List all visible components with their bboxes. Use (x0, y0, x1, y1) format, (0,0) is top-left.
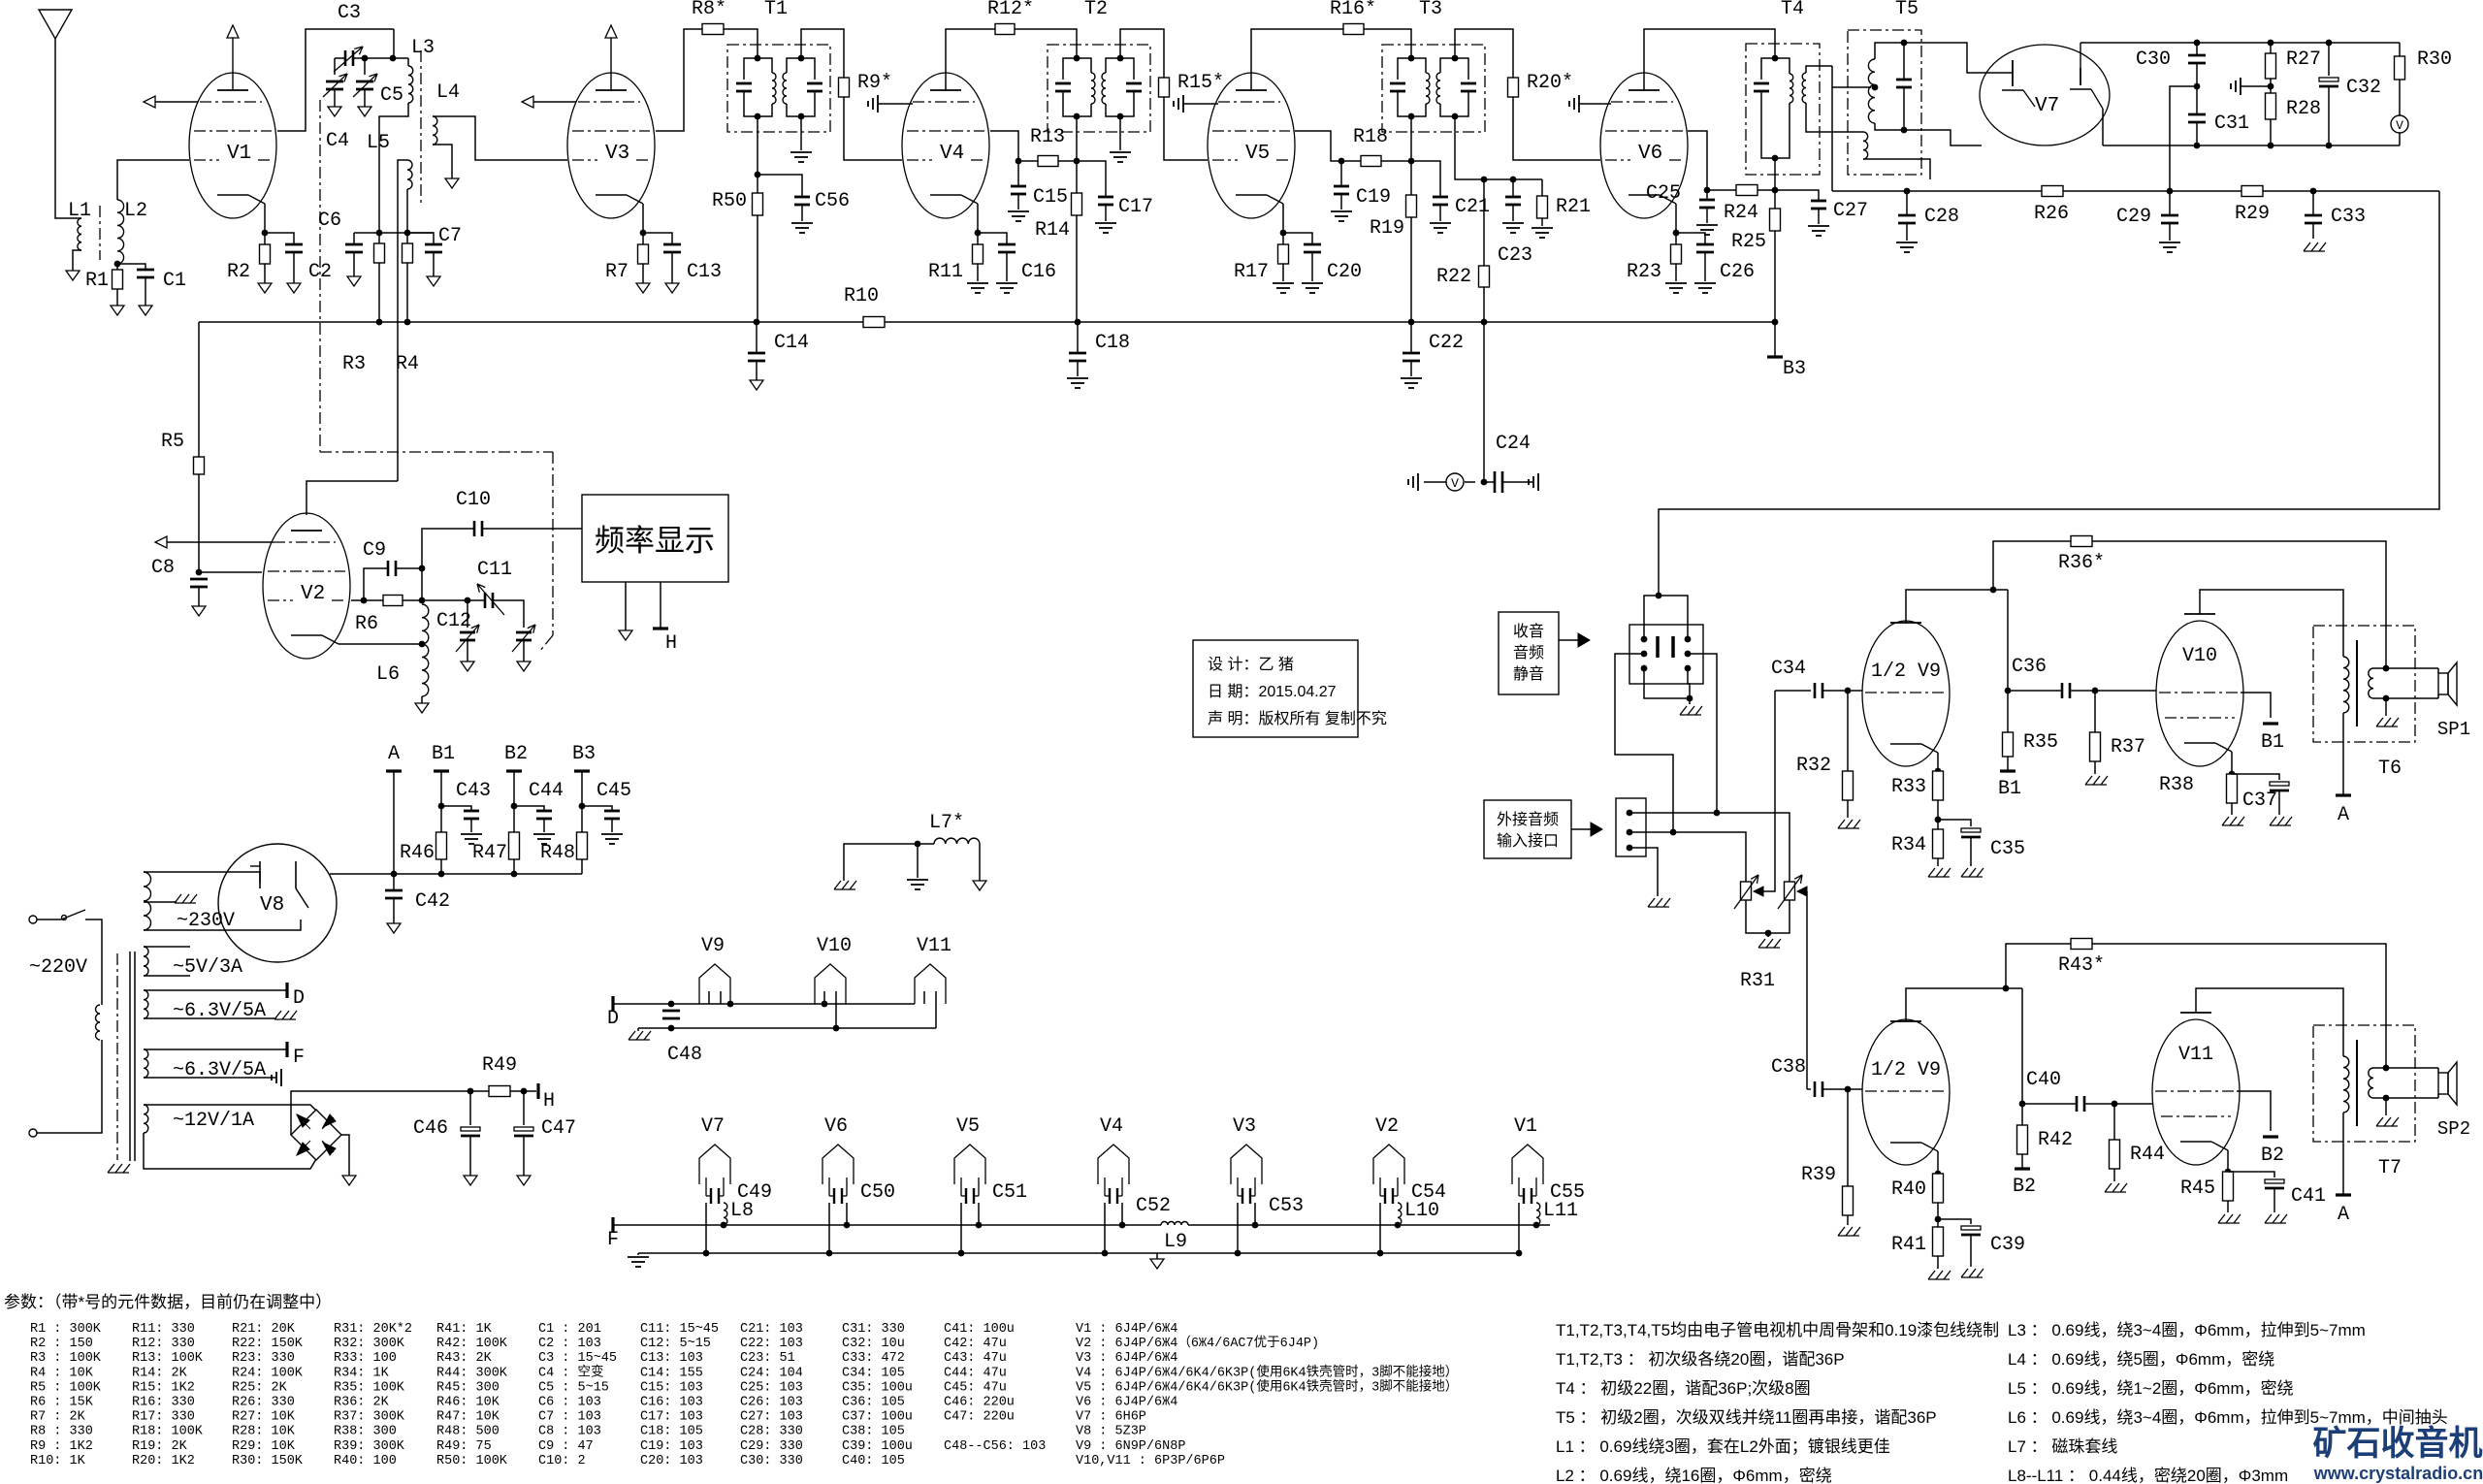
svg-text:C42: 47u: C42: 47u (944, 1337, 1007, 1351)
svg-text:R18: 100K: R18: 100K (132, 1425, 204, 1439)
resistor R48 (581, 806, 583, 832)
wire (354, 232, 434, 234)
svg-text:V4 : 6J4P/6Ж4/6K4/6K3P(使用6K4铁壳: V4 : 6J4P/6Ж4/6K4/6K3P(使用6K4铁壳管时，3脚不能接地） (1076, 1363, 1458, 1380)
resistor R29 (2241, 186, 2263, 197)
transformer T6 (2313, 626, 2415, 742)
ground (636, 283, 650, 293)
svg-text:L8--L11 ： 0.44线，密绕20圈，Φ3mm: L8--L11 ： 0.44线，密绕20圈，Φ3mm (2008, 1467, 2288, 1484)
svg-text:C48--C56: 103: C48--C56: 103 (944, 1439, 1046, 1454)
socket V7 (699, 1145, 730, 1184)
winding 6.3V/5A F (144, 1049, 148, 1078)
svg-text:1/2 V9: 1/2 V9 (1871, 1059, 1941, 1081)
tube V1 (189, 73, 276, 218)
svg-text:V: V (2396, 118, 2403, 133)
svg-text:L5 ： 0.69线，绕1~2圈，Φ6mm，密绕: L5 ： 0.69线，绕1~2圈，Φ6mm，密绕 (2008, 1379, 2294, 1398)
resistor R22 (1479, 266, 1490, 287)
svg-text:A: A (388, 743, 400, 765)
svg-text:R50: R50 (712, 190, 747, 212)
wire B+ (330, 873, 394, 875)
svg-text:C13: 103: C13: 103 (640, 1351, 703, 1366)
svg-text:R11: R11 (928, 261, 963, 283)
capacitor C42 (393, 874, 395, 890)
svg-text:C45: C45 (597, 780, 631, 802)
winding 230V (144, 872, 151, 930)
wire cathode V4 (977, 204, 979, 233)
svg-text:R14: R14 (1035, 219, 1070, 242)
svg-text:T6: T6 (2378, 758, 2402, 780)
ground (1928, 868, 1935, 877)
tube V2 (263, 513, 350, 659)
wire cathode V3 (642, 204, 644, 233)
V7 diode 2 (2080, 43, 2081, 68)
svg-text:R15: 1K2: R15: 1K2 (132, 1380, 195, 1395)
svg-text:R41: R41 (1891, 1234, 1926, 1256)
svg-text:频率显示: 频率显示 (595, 524, 715, 558)
bridge rectifier (291, 1110, 341, 1160)
svg-text:C4 : 空变: C4 : 空变 (538, 1364, 604, 1380)
svg-text:R12*: R12* (987, 0, 1034, 20)
capacitor C49 (705, 1178, 707, 1196)
svg-text:R47: 10K: R47: 10K (436, 1410, 500, 1425)
ground (258, 283, 272, 293)
wire (393, 29, 394, 58)
wire (1774, 158, 1776, 209)
svg-text:矿石收音机: 矿石收音机 (2312, 1424, 2482, 1463)
svg-text:L3: L3 (411, 37, 435, 59)
svg-text:R4: R4 (396, 353, 419, 375)
svg-text:SP2: SP2 (2437, 1118, 2470, 1140)
resistor R25 (1770, 209, 1781, 231)
capacitor C21 (1411, 161, 1440, 197)
ground (192, 606, 206, 616)
ground (2222, 817, 2229, 825)
svg-text:C26: 103: C26: 103 (740, 1396, 803, 1410)
terminal F (285, 1042, 288, 1057)
svg-text:V3: V3 (1233, 1115, 1256, 1138)
heater bus F line1 (613, 1224, 1161, 1226)
svg-text:T5 ： 初级2圈，次级双线并绕11圈再串接，谐配36P: T5 ： 初级2圈，次级双线并绕11圈再串接，谐配36P (1556, 1408, 1937, 1427)
wire (1644, 668, 1690, 698)
svg-text:R47: R47 (472, 842, 507, 864)
wire (918, 843, 934, 845)
resistor R44 (2113, 1104, 2115, 1140)
capacitor C4 (326, 81, 343, 83)
svg-text:C9 : 47: C9 : 47 (538, 1439, 594, 1454)
resistor R24 (1736, 185, 1757, 196)
terminal A (2336, 1193, 2351, 1196)
svg-text:B1: B1 (432, 743, 455, 765)
ground g3 V4 (877, 95, 879, 113)
svg-text:R4 : 10K: R4 : 10K (30, 1366, 94, 1380)
capacitor C36 (2008, 690, 2062, 692)
det rail (1832, 190, 2042, 192)
svg-text:L2 ： 0.69线，绕16圈，Φ6mm，密绕: L2 ： 0.69线，绕16圈，Φ6mm，密绕 (1556, 1467, 1832, 1484)
ground g3 V6 (1578, 95, 1580, 113)
svg-text:V11: V11 (2178, 1044, 2213, 1066)
svg-text:R1 : 300K: R1 : 300K (30, 1322, 102, 1337)
inductor L5 (407, 160, 412, 189)
svg-text:V2: V2 (301, 583, 325, 605)
svg-text:B3: B3 (572, 743, 596, 765)
capacitor C46 (469, 1091, 471, 1125)
resistor R11 (973, 244, 984, 264)
svg-text:C35: 100u: C35: 100u (842, 1380, 913, 1395)
ground (1758, 939, 1765, 948)
wire B+ heater (291, 1091, 489, 1135)
resistor R3 (374, 243, 385, 263)
ground (427, 276, 440, 286)
wire cathode V5 (1282, 204, 1284, 233)
svg-text:C33: 472: C33: 472 (842, 1351, 905, 1366)
svg-text:C56: C56 (815, 190, 850, 212)
plate wire (946, 29, 995, 90)
transformer core (116, 953, 118, 1160)
wire (364, 58, 366, 75)
svg-text:R32: 300K: R32: 300K (334, 1337, 405, 1351)
wire (198, 474, 200, 572)
svg-text:B2: B2 (504, 743, 528, 765)
ground (2218, 1214, 2225, 1223)
svg-text:R44: 300K: R44: 300K (436, 1366, 508, 1380)
wire (353, 57, 393, 59)
svg-text:C3 : 15~45: C3 : 15~45 (538, 1351, 617, 1366)
ground (2159, 242, 2180, 243)
svg-text:C24: C24 (1496, 433, 1531, 455)
resistor R36* (1993, 541, 2071, 590)
terminal H (660, 582, 661, 629)
svg-text:R46: R46 (400, 842, 435, 864)
svg-text:C2 : 103: C2 : 103 (538, 1337, 601, 1351)
ground (907, 879, 928, 881)
plate rail V11 (2196, 988, 2343, 1036)
svg-text:R16: 330: R16: 330 (132, 1396, 195, 1410)
box design info (1193, 640, 1358, 737)
svg-text:C42: C42 (415, 890, 450, 913)
ground (1273, 282, 1294, 284)
svg-text:R21: 20K: R21: 20K (232, 1322, 296, 1337)
capacitor C16 (978, 233, 1007, 244)
svg-text:D: D (607, 1008, 619, 1030)
svg-text:R46: 10K: R46: 10K (436, 1396, 500, 1410)
capacitor C7 (407, 233, 434, 244)
plate wire (1251, 29, 1343, 90)
resistor R12* (995, 24, 1015, 35)
terminal B3 (1774, 322, 1776, 357)
capacitor C27 (1775, 190, 1819, 201)
wire to V3 grid (433, 116, 567, 160)
svg-text:R2: R2 (227, 261, 250, 283)
svg-text:R41: 1K: R41: 1K (436, 1322, 493, 1337)
capacitor C28 (1906, 191, 1908, 215)
svg-text:B1: B1 (1998, 778, 2021, 800)
resistor R32 (1847, 691, 1849, 771)
wire (1904, 43, 1982, 73)
svg-text:C3: C3 (338, 2, 361, 24)
ground T1 secondary (800, 116, 802, 150)
transformer T7 (2313, 1025, 2415, 1142)
resistor R45 (2223, 1172, 2234, 1201)
svg-text:www.crystalradio.cn: www.crystalradio.cn (2313, 1464, 2483, 1483)
wire (144, 1105, 316, 1111)
svg-text:L4: L4 (436, 81, 460, 104)
svg-text:R13: R13 (1030, 126, 1065, 148)
socket V2 (1373, 1145, 1404, 1184)
svg-text:C19: 103: C19: 103 (640, 1439, 703, 1454)
ground (1838, 1227, 1845, 1236)
ground (328, 107, 341, 116)
wire (265, 233, 294, 244)
svg-text:R48: 500: R48: 500 (436, 1425, 500, 1439)
ground (1665, 282, 1687, 284)
capacitor C33 (2312, 191, 2314, 215)
heater bus F line2 (638, 1252, 1519, 1254)
ground (1896, 242, 1918, 243)
wire wiper A (1763, 691, 1775, 891)
connector J1 (1616, 798, 1646, 856)
wire cathode V6 (1675, 204, 1677, 233)
ground (1502, 222, 1524, 224)
svg-text:L6: L6 (376, 663, 400, 686)
g3 arrow (167, 541, 274, 543)
svg-text:C22: C22 (1429, 332, 1464, 354)
transformer T4 (1746, 44, 1820, 175)
ground (342, 1176, 356, 1185)
svg-text:C11: C11 (477, 559, 512, 581)
socket V4 (1098, 1145, 1129, 1184)
svg-text:L4 ： 0.69线，绕5圈，Φ6mm，密绕: L4 ： 0.69线，绕5圈，Φ6mm，密绕 (2008, 1350, 2274, 1369)
svg-text:R10: R10 (844, 285, 879, 307)
ground (996, 282, 1017, 284)
svg-text:声 明：版权所有 复制不究: 声 明：版权所有 复制不究 (1208, 710, 1387, 727)
wire (406, 189, 408, 233)
socket V10 (815, 964, 846, 1004)
speaker SP2 (2386, 1067, 2438, 1069)
plate supply arrow (232, 38, 234, 90)
svg-text:R27: 10K: R27: 10K (232, 1410, 296, 1425)
capacitor C47 (523, 1091, 525, 1125)
ground (1008, 210, 1029, 212)
transformer T5 (1848, 30, 1921, 175)
capacitor C37 (2232, 774, 2279, 780)
wire (55, 39, 81, 218)
capacitor C9 (364, 568, 388, 600)
svg-text:收音: 收音 (1513, 623, 1544, 640)
ground (1694, 282, 1716, 284)
socket V1 (1512, 1145, 1543, 1184)
svg-text:C12: 5~15: C12: 5~15 (640, 1337, 711, 1351)
ground (2270, 817, 2276, 825)
wire (379, 103, 408, 233)
svg-text:V3: V3 (605, 143, 629, 165)
arrow (1559, 639, 1578, 641)
svg-text:R3: R3 (342, 353, 366, 375)
ground (1417, 473, 1419, 491)
svg-text:V9 : 6N9P/6N8P: V9 : 6N9P/6N8P (1076, 1439, 1185, 1454)
capacitor C6 (353, 233, 355, 244)
resistor R4 (403, 243, 413, 263)
svg-text:R7 : 2K: R7 : 2K (30, 1410, 86, 1425)
tube 1/2 V9 (1862, 1019, 1950, 1165)
ground (1401, 377, 1422, 379)
svg-text:A: A (2338, 804, 2349, 826)
wire (341, 1135, 349, 1176)
wire (1015, 29, 1077, 58)
svg-text:R19: R19 (1370, 217, 1404, 240)
svg-text:~12V/1A: ~12V/1A (173, 1110, 254, 1132)
wire (2095, 690, 2156, 692)
svg-text:R30: 150K: R30: 150K (232, 1454, 304, 1468)
svg-text:T3: T3 (1419, 0, 1442, 20)
socket V11 (915, 964, 946, 1004)
capacitor C19 (1340, 161, 1342, 186)
svg-text:R20: 1K2: R20: 1K2 (132, 1454, 195, 1468)
resistor R7 (638, 244, 649, 264)
svg-text:C47: 220u: C47: 220u (944, 1410, 1015, 1425)
wire (917, 844, 919, 878)
capacitor C11 variable (468, 599, 485, 601)
ground (750, 380, 763, 390)
resistor R39 (1847, 1089, 1849, 1186)
svg-text:R39: 300K: R39: 300K (334, 1439, 405, 1454)
ground g3 V5 (1182, 95, 1184, 113)
resistor R20* (1508, 78, 1519, 97)
svg-text:B2: B2 (2013, 1176, 2036, 1198)
wire (724, 29, 758, 58)
svg-text:C20: 103: C20: 103 (640, 1454, 703, 1468)
svg-text:R29: 10K: R29: 10K (232, 1439, 296, 1454)
node (335, 57, 345, 59)
winding 12V/1A (144, 1105, 148, 1133)
ground (967, 282, 988, 284)
svg-text:R23: 330: R23: 330 (232, 1351, 295, 1366)
svg-text:C6: C6 (318, 210, 341, 232)
wire (1076, 116, 1078, 322)
svg-text:V: V (1451, 476, 1459, 491)
resistor R28 (2266, 93, 2276, 119)
svg-text:R24: R24 (1724, 202, 1758, 224)
capacitor C31 (2188, 113, 2206, 116)
rail bottom (2103, 145, 2400, 146)
ground (1156, 1253, 1158, 1259)
svg-text:C32: C32 (2346, 77, 2381, 99)
svg-text:R31: R31 (1740, 970, 1775, 992)
wire (1455, 29, 1513, 78)
rail A B1 B2 B3 (394, 873, 582, 875)
wire (844, 844, 918, 881)
svg-text:C13: C13 (687, 261, 722, 283)
svg-text:R6 : 15K: R6 : 15K (30, 1396, 94, 1410)
ground (1961, 1269, 1968, 1277)
svg-text:C47: C47 (541, 1117, 576, 1140)
svg-text:R33: R33 (1891, 776, 1926, 798)
switch (37, 919, 61, 920)
svg-text:SP1: SP1 (2437, 719, 2470, 740)
rail top (2080, 42, 2400, 44)
resistor R27 (2270, 43, 2272, 53)
arrow (1571, 828, 1591, 830)
svg-text:B1: B1 (2261, 731, 2284, 754)
resistor R14 (1072, 193, 1082, 215)
plate supply arrow (610, 38, 612, 90)
svg-text:C36: C36 (2012, 656, 2047, 678)
wire (1904, 130, 1982, 145)
svg-text:R27: R27 (2286, 48, 2321, 71)
svg-text:T1: T1 (764, 0, 788, 20)
svg-text:R6: R6 (355, 613, 378, 635)
svg-text:V6: V6 (824, 1115, 848, 1138)
svg-text:C39: C39 (1990, 1234, 2025, 1256)
ground (1331, 210, 1352, 212)
svg-text:C28: C28 (1924, 206, 1959, 228)
winding 5V/3A (144, 947, 148, 976)
ground (2304, 242, 2310, 251)
capacitor C38 (1807, 1088, 1811, 1090)
svg-text:V10: V10 (817, 935, 852, 957)
tube V6 (1600, 73, 1688, 218)
ground T2 secondary (1119, 116, 1121, 150)
resistor R21 (1541, 179, 1543, 196)
wire (145, 277, 146, 306)
resistor R43* (2006, 944, 2071, 988)
wire (1615, 654, 1673, 832)
ground (66, 271, 80, 280)
terminal H (536, 1083, 539, 1099)
svg-text:R40: 100: R40: 100 (334, 1454, 397, 1468)
ground (358, 107, 371, 116)
svg-text:L7 ： 磁珠套线: L7 ： 磁珠套线 (2008, 1437, 2117, 1456)
wire g2 (656, 29, 702, 131)
tube 1/2 V9 (1862, 621, 1950, 766)
ground (2105, 1183, 2112, 1192)
inductor L6 (422, 604, 429, 644)
svg-text:R36*: R36* (2058, 552, 2105, 574)
svg-text:R20*: R20* (1527, 72, 1573, 94)
ground (2385, 698, 2387, 716)
svg-text:V7: V7 (2035, 95, 2059, 117)
svg-text:C5 : 5~15: C5 : 5~15 (538, 1380, 609, 1395)
ground (387, 923, 401, 933)
ground (1680, 706, 1687, 715)
trimmer (516, 631, 532, 634)
T7 secondary (2369, 1068, 2373, 1098)
svg-text:C32: 10u: C32: 10u (842, 1337, 905, 1351)
T6 primary (2343, 657, 2349, 713)
wire (757, 116, 758, 175)
resistor R37 (2094, 691, 2096, 732)
svg-text:C17: 103: C17: 103 (640, 1410, 703, 1425)
wire (421, 696, 423, 703)
svg-text:R25: 2K: R25: 2K (232, 1380, 288, 1395)
wire (37, 1040, 102, 1133)
plate rail V9a (1906, 590, 2008, 623)
svg-text:V2 : 6J4P/6Ж4（6Ж4/6AC7优于6J4P): V2 : 6J4P/6Ж4（6Ж4/6AC7优于6J4P) (1076, 1335, 1319, 1351)
resistor R18 (1361, 156, 1381, 167)
wire (2114, 1103, 2152, 1105)
ground (637, 1253, 639, 1255)
resistor R10 (863, 317, 885, 328)
inductor L8 (724, 1203, 727, 1225)
wire det rail (1831, 87, 1833, 191)
inductor L2 (117, 200, 124, 264)
svg-text:C37: 100u: C37: 100u (842, 1410, 913, 1425)
wire (1483, 287, 1485, 482)
capacitor C25 (1706, 190, 1708, 200)
svg-text:R1: R1 (85, 270, 109, 292)
svg-text:C38: C38 (1771, 1056, 1806, 1079)
wire audio feed (1659, 191, 2439, 596)
wire (1164, 97, 1208, 160)
socket V9 (699, 964, 730, 1004)
